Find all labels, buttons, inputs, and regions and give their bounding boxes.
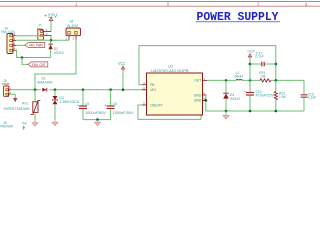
svg-text:GND: GND — [194, 99, 202, 103]
svg-text:C10: C10 — [256, 90, 262, 94]
svg-text:SS310: SS310 — [54, 51, 64, 55]
connector J6 — [0, 121, 14, 129]
svg-text:+5V: +5V — [21, 122, 27, 126]
svg-text:GND: GND — [194, 93, 202, 97]
svg-text:OUT: OUT — [194, 79, 201, 83]
diode D4 — [223, 80, 240, 111]
svg-text:PWR/SNP: PWR/SNP — [0, 125, 14, 129]
svg-text:FAN_CNT: FAN_CNT — [32, 63, 46, 67]
svg-text:U3: U3 — [168, 65, 173, 69]
wire J4 pin1 to J7 pin2 — [16, 35, 44, 37]
varistor RV1 — [3, 90, 40, 121]
svg-text:FAN_PWM: FAN_PWM — [29, 44, 43, 48]
svg-text:0.1uF: 0.1uF — [308, 96, 316, 100]
wire output rail — [207, 79, 236, 81]
svg-text:ON/OFF: ON/OFF — [150, 103, 162, 107]
svg-text:1.5K: 1.5K — [279, 95, 287, 99]
junction output rail x=250 — [249, 79, 252, 82]
op-amp regulator U3 — [142, 65, 207, 115]
junction input rail x=83 — [82, 88, 85, 91]
svg-text:+: + — [77, 103, 79, 107]
wire J4 pin4 corner — [16, 50, 51, 57]
svg-text:D4: D4 — [230, 93, 234, 97]
junction node fan — [21, 56, 24, 59]
global label FAN_CNT — [28, 62, 48, 67]
svg-text:1000uF/50V: 1000uF/50V — [113, 111, 135, 115]
connector J8 — [66, 20, 81, 41]
resistor R22 — [274, 80, 286, 111]
wire feedback loop — [139, 46, 276, 85]
connector J4 FAN_CON — [1, 27, 16, 54]
power symbol VCC — [118, 61, 126, 90]
svg-text:1000uF/50V: 1000uF/50V — [85, 111, 107, 115]
svg-text:J6: J6 — [3, 121, 7, 125]
global label FAN_PWM — [25, 43, 45, 48]
ground arrow J5 — [13, 98, 17, 102]
junction ground rail x=275.8 — [275, 110, 278, 113]
connector J7 — [37, 24, 52, 40]
capacitor C10 — [244, 80, 275, 111]
svg-text:SS310: SS310 — [230, 97, 240, 101]
svg-text:+12V: +12V — [247, 49, 255, 53]
wire +12V to J7 — [50, 22, 52, 32]
junction input rail x=123 — [122, 88, 125, 91]
wire +12V rail J4 pin2 to J8 pin1 — [16, 39, 69, 41]
svg-text:D3: D3 — [60, 96, 64, 100]
wire J4 pin3 to FAN_PWM — [16, 44, 25, 46]
capacitor C12 — [250, 51, 276, 66]
svg-text:RV1: RV1 — [22, 101, 29, 105]
svg-text:VCC: VCC — [118, 61, 126, 66]
svg-text:VIN: VIN — [150, 88, 156, 92]
power symbol +5V — [21, 122, 27, 130]
svg-text:10K: 10K — [260, 75, 267, 79]
svg-text:JVR07N330K: JVR07N330K — [3, 107, 31, 111]
junction output rail x=226 — [225, 79, 228, 82]
svg-text:68uH: 68uH — [235, 75, 244, 79]
wire to FAN_CNT — [22, 58, 28, 65]
ground arrow D3 — [54, 120, 56, 122]
svg-text:+: + — [105, 103, 107, 107]
svg-text:D1: D1 — [42, 77, 46, 81]
power symbol +12V output — [247, 49, 255, 80]
svg-text:LM2576S-ADJ.NOPB: LM2576S-ADJ.NOPB — [151, 69, 189, 73]
junction ground rail x=226 — [225, 110, 228, 113]
junction input rail x=110.6 — [109, 88, 112, 91]
junction C12 right — [274, 63, 277, 66]
junction ground — [96, 118, 99, 121]
wire caps ground — [83, 119, 111, 121]
diode D2 — [48, 40, 63, 57]
ground arrow RV1 — [34, 121, 36, 123]
wire output ground rail — [206, 110, 304, 112]
wire U3 GND drop — [205, 95, 207, 111]
capacitor C6 — [105, 90, 135, 120]
junction ground rail x=250 — [249, 110, 252, 113]
wire J8 pin2 drop — [35, 40, 76, 89]
ground arrow output side — [225, 111, 227, 114]
junction C12 left — [249, 63, 252, 66]
junction +12V rail — [50, 39, 53, 42]
svg-text:+: + — [244, 89, 246, 93]
diode D1 — [37, 77, 53, 92]
capacitor C5 — [77, 90, 107, 120]
svg-text:D2: D2 — [54, 47, 58, 51]
TVS diode D3 — [52, 90, 80, 121]
svg-text:+12V: +12V — [44, 13, 58, 19]
wire ON/OFF ground — [138, 100, 206, 119]
connector J5 PWR — [2, 79, 12, 96]
svg-text:J8: J8 — [70, 20, 74, 24]
svg-text:R22: R22 — [279, 92, 285, 96]
wire input rail — [9, 89, 41, 91]
svg-text:SMAJ40A: SMAJ40A — [37, 80, 53, 84]
ground arrow input side — [97, 120, 99, 122]
junction input rail x=35 — [34, 88, 37, 91]
inductor L2 — [235, 71, 244, 80]
svg-text:0.1uF: 0.1uF — [255, 55, 263, 59]
junction output rail x=275.8 — [275, 79, 278, 82]
capacitor C15 — [301, 80, 316, 111]
sheet frame — [0, 2, 320, 7]
resistor R21 — [259, 71, 271, 82]
wire J5 pin2 — [9, 94, 15, 98]
svg-text:470uF/25V: 470uF/25V — [256, 94, 275, 98]
wire J7 to junction — [50, 35, 52, 40]
junction input rail x=55 — [54, 88, 57, 91]
